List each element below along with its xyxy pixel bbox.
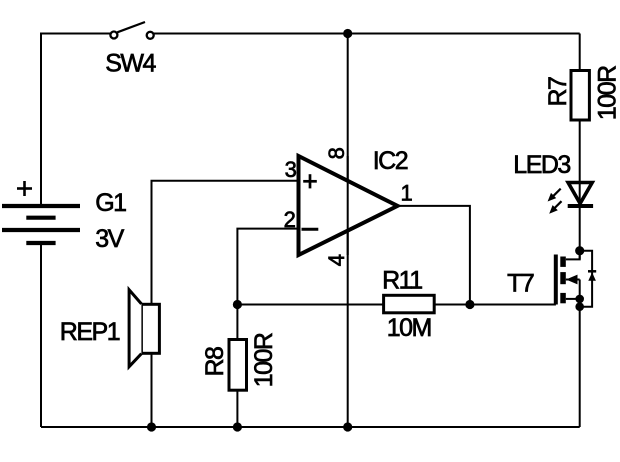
- wire top-left: left rail top to switch: [41, 34, 110, 207]
- substrate arrowhead: [566, 275, 578, 285]
- junction node output/R11/gate: [465, 300, 474, 309]
- wire junction to R11 left: [237, 304, 383, 306]
- LED arrow 1: [553, 189, 561, 197]
- svg-text:T7: T7: [507, 270, 534, 298]
- svg-text:10M: 10M: [387, 314, 431, 342]
- channel segment top: [560, 257, 566, 267]
- svg-text:3: 3: [285, 157, 297, 182]
- svg-text:R7: R7: [544, 77, 572, 107]
- junction node top mid rail: [343, 29, 352, 38]
- svg-text:REP1: REP1: [60, 318, 120, 346]
- wire R11 right to junction: [434, 304, 470, 306]
- wire bottom rail: [41, 426, 580, 428]
- svg-text:R11: R11: [382, 266, 422, 294]
- channel segment bottom: [560, 293, 566, 303]
- long plate 2: [2, 228, 80, 232]
- wire LED3 to T7 drain: [579, 181, 581, 259]
- op-amp U IC2: [284, 147, 413, 266]
- junction node T7 source: [575, 295, 584, 304]
- wire R8 bottom to bottom rail: [236, 390, 238, 427]
- plus sign: [17, 187, 32, 190]
- switch SW4: [105, 22, 156, 77]
- wire op-amp output to R11 right junction: [398, 206, 470, 305]
- svg-text:SW4: SW4: [105, 49, 156, 77]
- wire junction to R8 top: [236, 305, 238, 340]
- svg-text:2: 2: [284, 207, 296, 232]
- wire right rail top (to R7): [579, 34, 581, 71]
- LED LED3: [513, 151, 593, 214]
- svg-text:100R: 100R: [594, 66, 620, 120]
- transistor T7 (MOSFET with body diode): [507, 251, 596, 307]
- LED arrow 2: [553, 201, 561, 209]
- wire op-amp pin3 to REP1: [152, 181, 299, 304]
- body diode branch wire: [580, 251, 592, 307]
- drain lead: [566, 251, 580, 260]
- short plate 1: [26, 216, 55, 220]
- svg-text:G1: G1: [95, 189, 126, 217]
- minus input symbol: [302, 228, 319, 231]
- body diode triangle: [588, 272, 596, 280]
- svg-text:IC2: IC2: [373, 147, 408, 175]
- plus input symbol: [303, 180, 317, 183]
- substrate arrow lead: [566, 279, 580, 281]
- junction node T7 drain: [575, 246, 584, 255]
- speaker REP1: [60, 290, 160, 367]
- channel segment middle: [560, 272, 566, 284]
- svg-text:1: 1: [401, 181, 413, 206]
- svg-text:3V: 3V: [95, 225, 124, 253]
- wire junction to T7 gate: [470, 304, 556, 306]
- junction node pin2/R8/R11: [233, 300, 242, 309]
- wire mid vertical rail (op-amp pins 8 and 4): [347, 34, 349, 428]
- svg-text:8: 8: [324, 147, 349, 159]
- wire top: switch to right rail: [154, 33, 580, 35]
- junction node REP1 bottom: [147, 422, 156, 431]
- short plate 2: [26, 241, 55, 245]
- mid rail visible through triangle: [347, 156, 349, 255]
- battery G1: [2, 181, 126, 253]
- resistor R11: [382, 266, 434, 342]
- source lead: [566, 298, 580, 300]
- junction node mid rail bottom: [343, 422, 352, 431]
- wire REP1 bottom to bottom rail: [151, 353, 153, 427]
- svg-text:100R: 100R: [250, 333, 278, 387]
- junction node body diode return: [575, 302, 584, 311]
- gate bar: [554, 255, 558, 305]
- wire T7 source down to bottom rail: [579, 280, 581, 428]
- svg-text:4: 4: [324, 254, 349, 266]
- resistor R7: [544, 66, 620, 120]
- svg-text:R8: R8: [201, 347, 229, 377]
- wire left rail bottom: battery to bottom wire: [40, 243, 42, 427]
- resistor R8: [201, 333, 278, 390]
- wire op-amp pin2 to junction above R8: [237, 229, 298, 305]
- wire R7 to LED3: [579, 120, 581, 181]
- junction node R8 bottom: [233, 422, 242, 431]
- body diode cathode bar: [588, 270, 596, 273]
- long plate 1: [2, 204, 80, 208]
- svg-text:LED3: LED3: [513, 151, 570, 179]
